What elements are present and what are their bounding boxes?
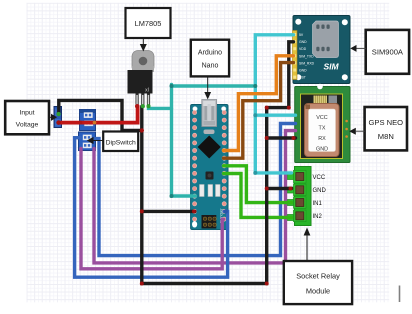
wire black input voltage jog xyxy=(59,100,142,130)
voltage regulator U1 LM7805 xyxy=(128,51,155,109)
svg-text:SIM_RXD: SIM_RXD xyxy=(299,61,315,65)
label Input Voltage callout box xyxy=(5,101,57,134)
node cyan branch GPS VCC xyxy=(253,113,257,117)
terminal IN1 xyxy=(287,200,294,206)
svg-text:Socket Relay: Socket Relay xyxy=(296,272,340,281)
svg-text:Input: Input xyxy=(19,110,34,117)
wire cyan branch to GPS VCC xyxy=(255,113,295,116)
svg-text:SIM_TXD: SIM_TXD xyxy=(299,54,314,58)
svg-text:5V: 5V xyxy=(299,33,304,37)
svg-text:Voltage: Voltage xyxy=(16,122,39,129)
mcu chip diamond xyxy=(198,136,221,159)
svg-text:TX: TX xyxy=(319,126,326,132)
wire purple GPS RX to DipSwitch inner loop xyxy=(94,131,296,263)
svg-text:DipSwitch: DipSwitch xyxy=(106,139,136,146)
svg-text:IN1: IN1 xyxy=(313,201,323,207)
node black relay GND tee xyxy=(265,187,269,191)
node input connector positive dot xyxy=(57,112,61,116)
pin labels xyxy=(299,33,315,80)
wire black branch to relay GND xyxy=(267,187,292,190)
DipSwitch module 2 xyxy=(79,132,96,151)
svg-text:GND: GND xyxy=(299,69,307,73)
DipSwitch module 1 xyxy=(79,110,97,131)
svg-text:VDD: VDD xyxy=(299,47,307,51)
svg-text:IN2: IN2 xyxy=(313,214,323,220)
terminal IN2 xyxy=(287,215,294,221)
svg-text:Arduino: Arduino xyxy=(198,50,222,57)
terminal VCC xyxy=(287,174,294,180)
svg-text:LM7805: LM7805 xyxy=(135,19,162,28)
wire cyan SIM 5V down to relay VCC xyxy=(255,35,293,173)
pin pads right xyxy=(222,110,226,221)
connector J1 input power terminal xyxy=(54,107,62,128)
wire blue Arduino to DipSwitch outer loop xyxy=(75,138,228,278)
SIM900A module U3 xyxy=(293,16,351,84)
node blue cap at Arduino pin xyxy=(224,209,228,213)
svg-text:RX: RX xyxy=(318,136,326,142)
wire teal 5V bus horizontal xyxy=(172,84,256,87)
svg-text:SIM: SIM xyxy=(323,62,339,72)
wire red VIN rail xyxy=(59,106,138,123)
svg-text:Nano: Nano xyxy=(202,63,219,70)
label GPS NEO M8N callout box xyxy=(349,107,407,150)
socket relay module board xyxy=(287,167,326,226)
node black SIM GND corner xyxy=(287,106,291,110)
svg-text:Module: Module xyxy=(306,287,330,296)
node black main corner top xyxy=(265,106,269,110)
svg-text:GND: GND xyxy=(316,147,328,153)
node black input jog junction xyxy=(140,128,144,132)
reset button xyxy=(206,172,214,180)
GPS NEO M8N module U4 xyxy=(295,84,350,163)
node input connector negative dot xyxy=(56,120,60,124)
svg-text:M8N: M8N xyxy=(378,132,394,141)
terminal GND xyxy=(287,187,294,193)
svg-text:VCC: VCC xyxy=(313,175,326,181)
wire blue GPS TX to DipSwitch inner loop xyxy=(95,124,296,256)
node regulator leg3 dot xyxy=(147,104,151,108)
svg-text:GPS NEO: GPS NEO xyxy=(368,118,403,127)
svg-text:GND: GND xyxy=(299,40,307,44)
node module1 left pin dot xyxy=(79,121,83,125)
node black relay GND end xyxy=(289,187,293,191)
wire purple Arduino to DipSwitch outer loop xyxy=(81,149,224,269)
node regulator leg1 dot xyxy=(135,104,139,108)
label Socket Relay Module callout box xyxy=(284,228,352,305)
node teal corner at Arduino 5V xyxy=(170,194,174,198)
wire green Arduino to relay IN1 xyxy=(224,166,292,203)
wire brown Arduino RX to SIM_RXD xyxy=(224,63,294,159)
page mark gray tick bottom right xyxy=(399,286,401,303)
wire black branch to Arduino GND pin xyxy=(142,210,195,213)
node black GPS GND end xyxy=(292,136,296,140)
node regulator leg2 dot xyxy=(141,104,145,108)
svg-text:RST: RST xyxy=(299,76,306,80)
icsp header xyxy=(202,215,217,229)
node black Arduino GND end xyxy=(192,209,196,213)
crystal xyxy=(204,130,215,135)
node teal bus right junction xyxy=(253,84,257,88)
node black bottom corner xyxy=(265,282,269,286)
label Arduino Nano callout box xyxy=(191,40,229,100)
svg-text:xI: xI xyxy=(145,88,149,94)
wire teal regulator output to vertical xyxy=(149,106,172,110)
wire black branch to GPS GND xyxy=(267,136,296,139)
node black bottom left corner xyxy=(140,282,144,286)
capacitors xyxy=(200,185,205,197)
pin pads left xyxy=(193,110,197,221)
sim card xyxy=(313,21,339,58)
label LM7805 callout box xyxy=(126,8,171,52)
wire teal vertical to Arduino 5V pin xyxy=(172,85,196,197)
label DipSwitch callout box xyxy=(87,132,138,152)
relay pin labels xyxy=(313,175,327,220)
label SIM900A callout box xyxy=(350,30,409,74)
usb connector xyxy=(202,100,217,127)
node black Arduino GND tee xyxy=(140,209,144,213)
wire green Arduino to relay IN2 xyxy=(224,174,292,218)
wire black SIM GND down and around bottom xyxy=(142,42,294,284)
node cyan corner relay VCC xyxy=(253,171,257,175)
node module1 right pin dot xyxy=(93,121,97,125)
wire orange Arduino TX to SIM_TXD xyxy=(224,56,294,151)
svg-text:SIM900A: SIM900A xyxy=(372,48,404,57)
node teal bus left junction xyxy=(170,84,174,88)
Arduino Nano U2 xyxy=(191,100,228,230)
pin header xyxy=(293,31,298,80)
svg-text:GND: GND xyxy=(313,188,327,194)
svg-text:VCC: VCC xyxy=(316,115,327,121)
node black GPS GND tee xyxy=(265,136,269,140)
